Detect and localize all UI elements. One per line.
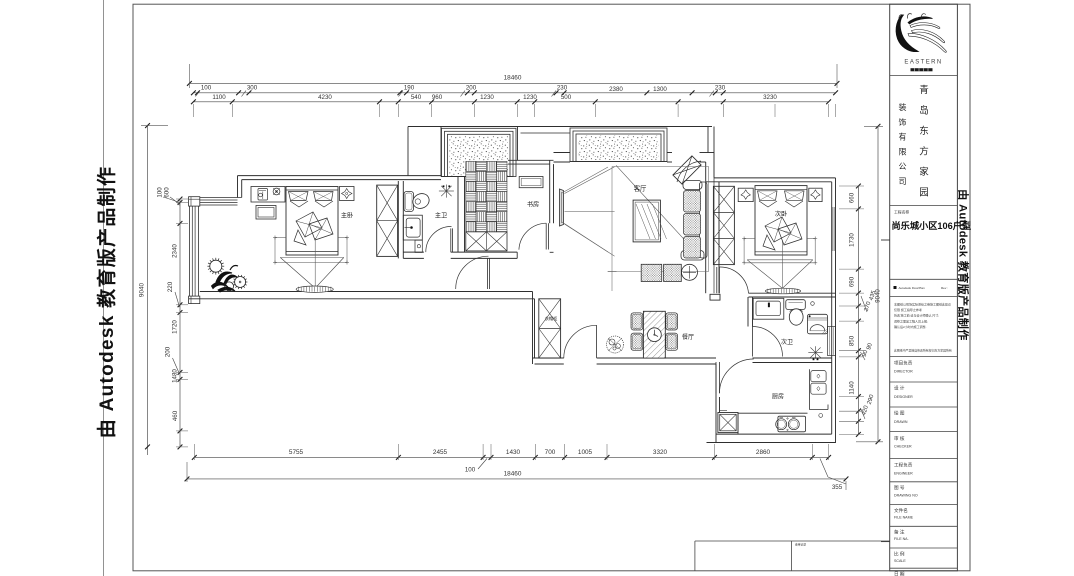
svg-text:660: 660: [849, 192, 856, 203]
door study: [545, 223, 547, 249]
svg-text:本图纸以现场实际测绘之卷施工图纸此建议: 本图纸以现场实际测绘之卷施工图纸此建议: [894, 302, 951, 307]
door closet: [596, 325, 598, 358]
svg-text:355: 355: [832, 484, 843, 491]
page border left trim line: [103, 0, 105, 576]
plant gear flower: [235, 277, 246, 288]
title block row lines: [890, 75, 958, 77]
study wall shelf: [519, 177, 543, 188]
master bedroom dresser: [251, 187, 285, 203]
svg-text:备 注: 备 注: [894, 529, 905, 536]
bath2 shower star: [808, 352, 822, 354]
svg-text:18460: 18460: [504, 75, 522, 82]
TV projection fan lines: [565, 167, 615, 194]
bay1 sill line: [441, 176, 465, 178]
top wall segments at entry level: [554, 152, 571, 154]
window corner block bottom-left: [189, 296, 200, 304]
svg-text:460: 460: [172, 410, 179, 421]
svg-text:100: 100: [157, 187, 164, 198]
svg-text:690: 690: [849, 276, 856, 287]
dim right outer line: [877, 126, 879, 442]
dim bottom total 18460: [187, 478, 846, 480]
dim right extension lines: [839, 185, 864, 187]
pouf 1: [641, 264, 662, 281]
svg-text:540: 540: [411, 94, 422, 101]
master oval rug: [296, 286, 333, 292]
dining chairs: [631, 313, 643, 330]
master top-left jog wall: [237, 176, 239, 198]
bath1 floor drain: [415, 240, 422, 252]
band between bays: [517, 127, 519, 161]
svg-text:2455: 2455: [433, 449, 448, 456]
bath1 shower star: [439, 190, 454, 192]
svg-text:EASTERN: EASTERN: [904, 60, 942, 66]
master bed: [286, 187, 338, 256]
door bath2: [752, 327, 754, 357]
study top wall: [508, 159, 554, 161]
svg-text:3230: 3230: [763, 94, 777, 101]
bedroom2 nightstand left: [738, 188, 753, 201]
TV on study wall: [560, 189, 564, 226]
bedroom2 rug outline: [743, 239, 745, 263]
bath2 duct hatch: [828, 327, 836, 356]
svg-text:文件名: 文件名: [894, 507, 908, 514]
svg-text:次卧: 次卧: [775, 210, 787, 218]
bedroom2 right wall with window: [835, 178, 837, 297]
svg-text:绘 图: 绘 图: [894, 410, 905, 417]
svg-text:1300: 1300: [653, 86, 667, 93]
master nightstand right: [340, 187, 355, 201]
svg-text:厨房: 厨房: [772, 393, 784, 401]
svg-text:100: 100: [201, 84, 212, 91]
dim top extension lines: [192, 104, 194, 117]
dim bottom extension lines: [193, 444, 195, 460]
entry door leaf rotated: [673, 156, 701, 184]
svg-text:此图纸中严禁擅自修改所有权归东方家园所有: 此图纸中严禁擅自修改所有权归东方家园所有: [894, 348, 952, 353]
svg-text:装: 装: [899, 102, 907, 112]
sofa: [700, 182, 708, 258]
bedroom2 south wall with door opening: [749, 292, 836, 294]
svg-text:方: 方: [919, 146, 929, 158]
window corner block top-left: [189, 197, 200, 206]
dining table: [643, 311, 665, 358]
svg-text:2860: 2860: [756, 449, 771, 456]
svg-text:4230: 4230: [318, 94, 332, 101]
svg-text:2380: 2380: [609, 86, 623, 93]
bottom signature strip: [695, 540, 890, 542]
door master bath: [450, 228, 452, 252]
disclaimer box autodesk line: [894, 286, 897, 289]
svg-text:1140: 1140: [849, 381, 856, 395]
bay window 2 frame: [570, 128, 667, 162]
svg-text:200: 200: [466, 84, 477, 91]
svg-text:审 核: 审 核: [894, 435, 905, 442]
pouf 2: [664, 264, 682, 281]
svg-text:2340: 2340: [172, 244, 179, 258]
svg-text:确认后2小时内施工调整.: 确认后2小时内施工调整.: [894, 324, 927, 329]
title block outer box: [890, 4, 958, 571]
svg-text:1720: 1720: [172, 320, 179, 334]
fold marks left of title block: [881, 239, 890, 241]
dim top tier3: [193, 101, 828, 103]
bath1 toilet: [404, 192, 414, 212]
living room ceiling outline: [612, 166, 709, 168]
svg-text:1230: 1230: [480, 94, 494, 101]
svg-text:200: 200: [165, 346, 172, 357]
svg-text:500: 500: [561, 94, 572, 101]
pier at hallway-dining junction: [710, 294, 720, 300]
master closet east wall: [397, 181, 399, 258]
south wall left section: [189, 298, 535, 300]
svg-text:FILE NAME: FILE NAME: [894, 516, 914, 520]
svg-text:Autodesk FloorPlan: Autodesk FloorPlan: [899, 286, 926, 290]
bath1-study divider wall: [457, 177, 459, 253]
svg-text:次卫: 次卫: [781, 338, 793, 346]
svg-text:9040: 9040: [139, 282, 146, 297]
svg-text:餐厅: 餐厅: [682, 333, 694, 341]
svg-text:ENGINEER: ENGINEER: [894, 472, 913, 476]
master rug outline: [274, 238, 276, 263]
master floor fan: [280, 257, 344, 259]
svg-text:公: 公: [899, 162, 907, 171]
svg-text:书房: 书房: [527, 201, 539, 209]
svg-text:DRAWING NO: DRAWING NO: [894, 494, 918, 498]
study cabinet below tatami: [466, 232, 507, 251]
svg-text:DRAWN: DRAWN: [894, 420, 908, 424]
svg-text:主卫: 主卫: [435, 212, 447, 220]
top window 4 lines: [200, 197, 242, 199]
dim right tier: [857, 186, 859, 434]
dim bottom tier1: [194, 456, 828, 458]
dim top tier2: [193, 92, 835, 94]
logo chinese subtitle smudge: [911, 68, 933, 71]
svg-text:9040: 9040: [876, 289, 882, 303]
dim left total 9040: [147, 126, 149, 455]
top band wall line: [408, 126, 712, 128]
bedroom2 floor fan: [747, 259, 813, 261]
svg-text:岛: 岛: [919, 105, 929, 117]
svg-text:园: 园: [919, 188, 929, 199]
kitchen south wall: [707, 442, 836, 444]
coffee table: [633, 200, 660, 242]
drawing frame: [133, 4, 970, 571]
corridor door to foyer: [487, 258, 489, 289]
bath2 washer basin: [807, 314, 827, 334]
bedroom2 oval rug: [765, 288, 800, 294]
living-bedroom wall band: [705, 182, 707, 293]
bath2 vanity: [753, 298, 784, 319]
svg-text:工程负责: 工程负责: [894, 462, 913, 469]
dining plant: [607, 336, 624, 353]
dim left extension lines: [176, 198, 188, 200]
svg-text:420: 420: [861, 404, 870, 416]
svg-text:拆改'施工前:请与设计师确认,尺寸;: 拆改'施工前:请与设计师确认,尺寸;: [894, 313, 939, 318]
svg-text:尚乐城小区106户型: 尚乐城小区106户型: [892, 220, 972, 231]
svg-text:230: 230: [715, 84, 726, 91]
svg-text:1230: 1230: [523, 94, 537, 101]
bay window 1 stipple fill: [450, 136, 509, 176]
dim top total 18460: [189, 82, 837, 84]
closet cabinet: [539, 299, 561, 358]
svg-text:项目负责: 项目负责: [894, 360, 913, 367]
svg-text:SCALE: SCALE: [894, 559, 906, 563]
svg-text:DESIGNER: DESIGNER: [894, 395, 913, 399]
svg-text:司: 司: [899, 177, 907, 186]
svg-text:工程名称: 工程名称: [894, 210, 909, 215]
svg-text:5755: 5755: [289, 449, 304, 456]
svg-text:1730: 1730: [849, 233, 856, 247]
kitchen right counter: [808, 369, 810, 409]
svg-text:190: 190: [404, 84, 415, 91]
bedroom2 top wall: [714, 177, 836, 179]
plant dark leaves: [216, 272, 232, 283]
svg-text:FILE NA.: FILE NA.: [894, 537, 909, 541]
svg-text:衣帽柜: 衣帽柜: [545, 315, 558, 322]
svg-text:Rev :: Rev :: [941, 286, 948, 290]
svg-text:220: 220: [167, 281, 174, 292]
svg-text:客厅: 客厅: [634, 184, 647, 193]
left window 4 lines: [189, 206, 191, 296]
bay window 1 frame: [442, 128, 517, 176]
svg-text:CHECKER: CHECKER: [894, 445, 912, 449]
bath-study south wall segments: [403, 251, 424, 253]
bay window 2 stipple fill: [578, 136, 659, 161]
svg-text:家: 家: [919, 166, 929, 178]
closet jog wall down: [532, 292, 534, 365]
logo EASTERN swoosh: [896, 15, 919, 52]
svg-text:调整之需宜工程人员上报;: 调整之需宜工程人员上报;: [894, 318, 928, 323]
svg-text:600: 600: [164, 187, 171, 198]
svg-text:有: 有: [899, 132, 907, 142]
band verticals above bath1: [407, 127, 409, 177]
master bedroom top wall: [238, 175, 442, 177]
door kitchen: [715, 362, 717, 393]
dim left tier: [179, 199, 181, 447]
svg-text:由 Autodesk 教育版产品制作: 由 Autodesk 教育版产品制作: [95, 166, 118, 439]
svg-text:90: 90: [866, 342, 874, 351]
svg-text:1100: 1100: [212, 94, 226, 101]
study right wall: [549, 160, 551, 223]
svg-text:仅限 施工指导之参考: 仅限 施工指导之参考: [894, 307, 922, 312]
svg-text:青: 青: [919, 84, 929, 96]
plant small circle: [225, 282, 234, 291]
svg-text:1430: 1430: [506, 449, 521, 456]
right exterior wall lower: [835, 297, 837, 443]
bedroom2 wardrobe: [713, 186, 734, 264]
svg-text:DIRECTOR: DIRECTOR: [894, 370, 913, 374]
svg-text:主卧: 主卧: [341, 212, 353, 220]
bath1 sink: [403, 215, 422, 240]
svg-text:3320: 3320: [653, 449, 668, 456]
kitchen burners: [778, 416, 806, 432]
master bedroom stool: [256, 206, 276, 220]
plant sun flower: [210, 260, 222, 272]
svg-text:850: 850: [849, 335, 856, 346]
living room ceiling diagonal: [616, 165, 701, 257]
door bedroom2: [716, 267, 718, 293]
svg-text:限: 限: [899, 147, 907, 156]
svg-text:1480: 1480: [172, 369, 179, 383]
bath2 left wall upper: [747, 297, 749, 327]
kitchen left wall below door: [715, 364, 717, 443]
svg-text:日 期: 日 期: [894, 572, 905, 576]
kitchen fridge: [718, 413, 738, 433]
kitchen counter bottom: [738, 412, 808, 414]
corridor south wall with closet door opening: [533, 357, 564, 359]
svg-text:700: 700: [545, 449, 556, 456]
svg-text:会审记录: 会审记录: [795, 543, 806, 547]
bedroom2 bed: [755, 186, 807, 255]
bedroom2 nightstand right: [809, 188, 822, 201]
study tatami woven mat: [466, 161, 476, 171]
svg-text:300: 300: [247, 84, 258, 91]
bath2 south wall: [753, 357, 832, 359]
svg-text:100: 100: [465, 467, 476, 474]
round side table: [682, 264, 698, 280]
entry band right verticals: [707, 127, 709, 153]
svg-text:由 Autodesk 教育版产品制作: 由 Autodesk 教育版产品制作: [957, 189, 971, 340]
svg-text:东: 东: [919, 125, 929, 137]
svg-text:290: 290: [867, 393, 876, 405]
svg-text:图 号: 图 号: [894, 485, 905, 491]
master closet cabinet: [377, 185, 398, 256]
svg-text:设 计: 设 计: [894, 385, 905, 392]
bath2 wall circle: [811, 302, 815, 306]
svg-text:比 例: 比 例: [894, 551, 905, 558]
bay2 sill line: [570, 161, 667, 163]
svg-text:1005: 1005: [578, 449, 593, 456]
svg-text:饰: 饰: [899, 117, 907, 127]
svg-text:960: 960: [432, 94, 443, 101]
bath2 toilet: [786, 300, 806, 310]
svg-text:18460: 18460: [504, 471, 522, 478]
svg-text:230: 230: [557, 84, 568, 91]
